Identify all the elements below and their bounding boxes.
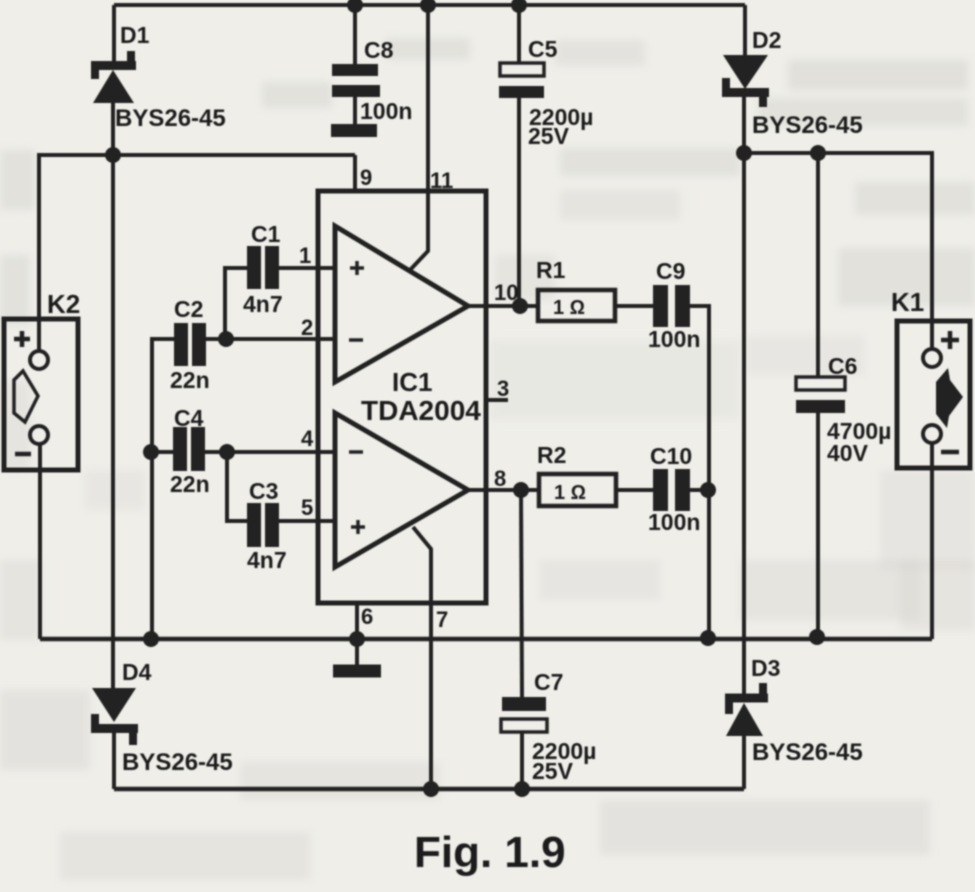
svg-text:IC1: IC1 xyxy=(392,367,432,397)
wire C2 left column to ground rail xyxy=(152,339,174,639)
label C8 xyxy=(364,37,394,63)
svg-text:1 Ω: 1 Ω xyxy=(553,297,585,319)
wire right supply branch y=153 (D2 to K1 plus) xyxy=(744,153,932,350)
svg-text:40V: 40V xyxy=(827,440,869,466)
wire K2 minus to ground rail xyxy=(38,444,42,639)
svg-text:4n7: 4n7 xyxy=(243,291,283,317)
value BYS26-45 (D4) xyxy=(122,749,233,776)
node D2 / D3 column junction xyxy=(736,145,752,161)
value 100n (C9) xyxy=(648,326,700,352)
svg-text:Fig. 1.9: Fig. 1.9 xyxy=(414,828,566,877)
label R2 xyxy=(537,442,566,468)
label D2 xyxy=(752,27,781,53)
svg-text:BYS26-45: BYS26-45 xyxy=(752,112,863,139)
value BYS26-45 (D3) xyxy=(752,739,863,766)
svg-text:3: 3 xyxy=(497,376,509,401)
svg-text:25V: 25V xyxy=(532,758,574,784)
svg-text:C6: C6 xyxy=(828,353,857,379)
wire C1 left to pin2 node xyxy=(225,268,247,339)
pin label 11 xyxy=(430,168,453,193)
svg-text:5: 5 xyxy=(301,495,313,520)
capacitor C6 xyxy=(796,377,845,413)
wire C2 right to pin 2 xyxy=(206,337,335,341)
wire lower rail xyxy=(114,787,744,792)
value 25V (C5) xyxy=(528,123,570,149)
pin label 10 xyxy=(494,280,518,305)
capacitor C10 xyxy=(653,469,690,511)
node top rail / C5 column xyxy=(511,0,527,13)
value 1 ohm (R1) xyxy=(553,297,585,319)
svg-text:D1: D1 xyxy=(120,22,150,48)
label C6 xyxy=(828,353,857,379)
svg-text:C2: C2 xyxy=(174,296,203,322)
node C4 / column junction xyxy=(143,444,159,460)
connector K1 xyxy=(897,321,970,468)
capacitor C2 xyxy=(174,323,206,366)
op-amp IC1b triangle xyxy=(335,413,468,567)
node ground rail / C2 column xyxy=(143,631,159,647)
svg-text:1 Ω: 1 Ω xyxy=(554,482,586,504)
wire C9 to output column xyxy=(690,306,709,637)
wire D1 bottom lead xyxy=(111,103,115,157)
value 1 ohm (R2) xyxy=(554,482,586,504)
wire pin 9 drop xyxy=(353,155,357,191)
wire R2 to C10 xyxy=(616,488,653,492)
label D4 xyxy=(122,659,152,685)
wire C1 right to pin 1 xyxy=(279,266,335,270)
svg-text:BYS26-45: BYS26-45 xyxy=(752,739,863,766)
label C1 xyxy=(251,221,281,247)
connector K2 xyxy=(4,319,78,470)
wire C5 top lead xyxy=(517,5,521,63)
svg-text:C9: C9 xyxy=(656,258,685,284)
value 100n (C8) xyxy=(360,98,412,124)
label C7 xyxy=(534,669,563,695)
op-amp IC1b plus input mark xyxy=(351,520,365,534)
svg-text:C4: C4 xyxy=(174,405,204,431)
wire C7 top lead xyxy=(521,490,522,697)
svg-text:R1: R1 xyxy=(536,257,566,283)
wire D4 bottom lead xyxy=(112,733,116,789)
svg-text:TDA2004: TDA2004 xyxy=(361,395,481,426)
svg-text:K2: K2 xyxy=(47,289,80,319)
node pin4 / C3 junction xyxy=(219,444,235,460)
svg-text:100n: 100n xyxy=(648,326,700,352)
svg-text:4: 4 xyxy=(301,426,314,451)
value 100n (C10) xyxy=(648,509,700,535)
value 40V (C6) xyxy=(827,440,869,466)
op-amp IC1a minus input mark xyxy=(349,338,363,342)
wire C8 inner lead xyxy=(353,97,357,124)
wire C6 bottom lead xyxy=(816,413,820,636)
wire C3 right to pin 5 xyxy=(279,519,335,523)
svg-text:100n: 100n xyxy=(648,509,700,535)
svg-text:C8: C8 xyxy=(364,37,394,63)
svg-text:BYS26-45: BYS26-45 xyxy=(122,749,233,776)
node lower rail / C7 xyxy=(514,781,530,797)
value 22n (C4) xyxy=(170,471,210,497)
op-amp IC1b minus input mark xyxy=(349,450,363,454)
svg-text:D4: D4 xyxy=(122,659,152,685)
value 4n7 (C3) xyxy=(247,547,287,573)
wire C4 right to pin 4 xyxy=(205,450,335,454)
svg-text:7: 7 xyxy=(436,607,448,632)
op-amp IC1a plus input mark xyxy=(350,261,364,275)
svg-text:D3: D3 xyxy=(751,655,780,681)
node top rail / pin11 column xyxy=(420,0,436,13)
diode D2 xyxy=(722,55,769,107)
label C2 xyxy=(174,296,203,322)
svg-text:9: 9 xyxy=(360,165,372,190)
svg-text:2: 2 xyxy=(301,315,313,340)
wire top supply rail xyxy=(114,3,745,7)
svg-text:C10: C10 xyxy=(650,443,692,469)
pin label 2 xyxy=(301,315,313,340)
label R1 xyxy=(536,257,566,283)
wire left supply branch y=155 (K2 plus to pin 9) xyxy=(39,155,355,350)
node pin8 / C7 junction xyxy=(513,482,529,498)
value 25V (C7) xyxy=(532,758,574,784)
pin label 3 xyxy=(497,376,509,401)
label C3 xyxy=(249,478,278,504)
wire D1 top lead xyxy=(112,5,116,62)
svg-text:22n: 22n xyxy=(170,367,210,393)
value TDA2004 xyxy=(361,395,481,426)
label IC1 xyxy=(392,367,432,397)
svg-text:11: 11 xyxy=(430,168,453,193)
pin 3 stub xyxy=(487,398,508,402)
capacitor C5 xyxy=(499,63,544,98)
node D1 / left branch junction xyxy=(105,147,121,163)
wire C6 top lead xyxy=(816,153,820,377)
node output column / C10 junction xyxy=(700,482,716,498)
capacitor C8 xyxy=(331,64,380,137)
wire C4 left lead xyxy=(152,450,173,454)
value 4700u (C6) xyxy=(827,418,891,444)
node ground rail / output column xyxy=(700,630,716,646)
wire C10 to output column xyxy=(690,488,709,492)
value 2200u (C7) xyxy=(532,738,596,764)
svg-text:C5: C5 xyxy=(528,36,558,62)
node top rail / C8 column xyxy=(347,0,363,13)
capacitor C3 xyxy=(247,503,279,547)
label C5 xyxy=(528,36,558,62)
node C6 column junction xyxy=(810,145,826,161)
IC op-amp U IC1 box xyxy=(318,191,486,603)
label K2 xyxy=(47,289,80,319)
wire C8 top lead xyxy=(353,5,357,64)
svg-text:22n: 22n xyxy=(170,471,210,497)
svg-text:C1: C1 xyxy=(251,221,281,247)
wire D2 bottom lead xyxy=(742,97,746,153)
pin label 5 xyxy=(301,495,313,520)
wire pin 10 output row xyxy=(468,304,538,308)
wire pin 7 column xyxy=(413,527,431,790)
label K1 xyxy=(891,287,924,317)
wire C3 link column xyxy=(227,452,247,521)
label C4 xyxy=(174,405,204,431)
value 2200u (C5) xyxy=(529,104,593,130)
pin label 7 xyxy=(436,607,448,632)
capacitor C1 xyxy=(247,246,279,289)
svg-text:C3: C3 xyxy=(249,478,278,504)
wire K1 minus to ground rail xyxy=(930,443,934,639)
svg-text:R2: R2 xyxy=(537,442,566,468)
wire R1 to C9 xyxy=(615,304,653,308)
diode D3 xyxy=(725,683,768,736)
node pin10 / C5 junction xyxy=(512,298,528,314)
op-amp IC1a triangle xyxy=(335,226,468,382)
svg-text:8: 8 xyxy=(494,466,506,491)
node pin2 / C1 junction xyxy=(218,331,234,347)
ground symbol at pin 6 xyxy=(333,639,381,671)
wire pin 11 column xyxy=(410,5,428,270)
resistor R1 xyxy=(538,290,615,321)
pin label 8 xyxy=(494,466,506,491)
wire D1-D4 column xyxy=(111,155,115,689)
value BYS26-45 (D1) xyxy=(115,105,226,132)
label D3 xyxy=(751,655,780,681)
value BYS26-45 (D2) xyxy=(752,112,863,139)
wire D3 bottom lead xyxy=(742,736,746,789)
pin label 1 xyxy=(299,243,311,268)
svg-text:4n7: 4n7 xyxy=(247,547,287,573)
node ground rail / pin 6 xyxy=(349,631,365,647)
svg-text:6: 6 xyxy=(361,604,373,629)
value 22n (C2) xyxy=(170,367,210,393)
svg-text:C7: C7 xyxy=(534,669,563,695)
wire D2-D3 column xyxy=(742,153,746,694)
pin label 6 xyxy=(361,604,373,629)
wire C5 bottom lead xyxy=(517,98,521,307)
diode D1 xyxy=(91,51,136,103)
wire ground rail xyxy=(40,637,932,642)
svg-text:1: 1 xyxy=(299,243,311,268)
node ground rail / C6 column xyxy=(809,629,825,645)
label D1 xyxy=(120,22,150,48)
capacitor C4 xyxy=(173,427,205,471)
pin label 9 xyxy=(360,165,372,190)
wire pin 8 output row xyxy=(468,488,539,492)
svg-text:100n: 100n xyxy=(360,98,412,124)
wire D2 top lead xyxy=(743,5,747,55)
svg-text:D2: D2 xyxy=(752,27,781,53)
capacitor C7 xyxy=(501,697,547,732)
label C10 xyxy=(650,443,692,469)
wire pin 6 column xyxy=(355,603,359,640)
value 4n7 (C1) xyxy=(243,291,283,317)
caption Fig. 1.9 xyxy=(414,828,566,877)
svg-text:BYS26-45: BYS26-45 xyxy=(115,105,226,132)
diode D4 xyxy=(91,688,138,745)
svg-text:K1: K1 xyxy=(891,287,924,317)
capacitor C9 xyxy=(653,285,690,327)
wire C7 bottom lead xyxy=(520,732,524,789)
pin label 4 xyxy=(301,426,314,451)
node lower rail / pin 7 xyxy=(423,781,439,797)
label C9 xyxy=(656,258,685,284)
svg-text:25V: 25V xyxy=(528,123,570,149)
resistor R2 xyxy=(539,474,616,506)
